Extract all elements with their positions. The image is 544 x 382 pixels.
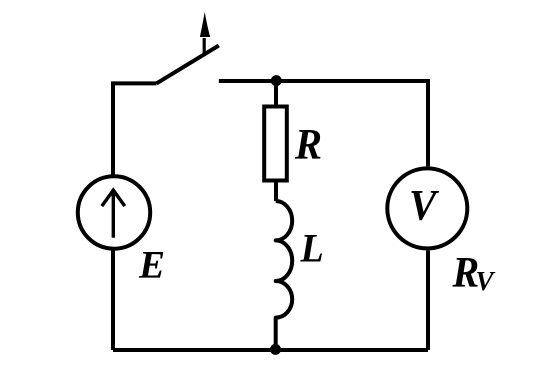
svg-text:V: V bbox=[409, 181, 440, 229]
svg-text:V: V bbox=[476, 266, 496, 296]
svg-text:L: L bbox=[300, 226, 324, 270]
svg-text:R: R bbox=[294, 121, 322, 168]
svg-text:E: E bbox=[138, 244, 165, 287]
